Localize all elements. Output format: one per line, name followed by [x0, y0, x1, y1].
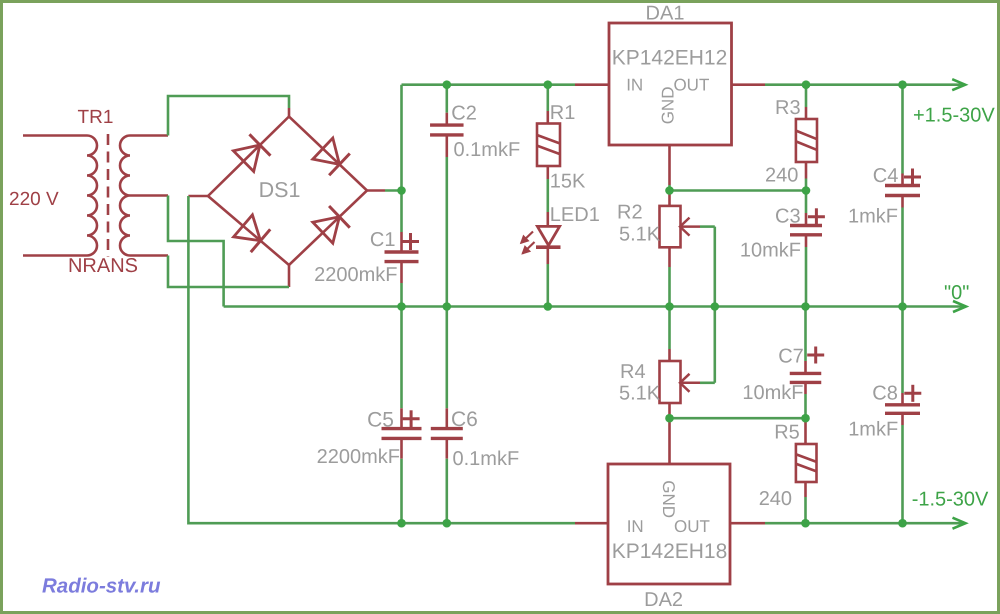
svg-text:5.1K: 5.1K: [619, 383, 661, 405]
svg-text:2200mkF: 2200mkF: [317, 446, 400, 468]
svg-text:15K: 15K: [550, 171, 586, 193]
svg-text:10mkF: 10mkF: [742, 382, 803, 404]
svg-text:-1.5-30V: -1.5-30V: [912, 489, 989, 511]
svg-text:C8: C8: [872, 382, 898, 404]
svg-text:0.1mkF: 0.1mkF: [454, 139, 521, 161]
svg-text:1mkF: 1mkF: [848, 206, 898, 228]
svg-text:C3: C3: [775, 206, 801, 228]
svg-text:240: 240: [759, 488, 792, 510]
svg-text:NRANS: NRANS: [68, 255, 138, 277]
svg-text:1mkF: 1mkF: [848, 419, 898, 441]
svg-text:OUT: OUT: [673, 76, 709, 95]
svg-text:C5: C5: [367, 409, 394, 432]
svg-text:KP142EH18: KP142EH18: [612, 540, 728, 563]
svg-text:5.1K: 5.1K: [619, 224, 661, 246]
svg-text:R3: R3: [775, 97, 801, 119]
svg-text:LED1: LED1: [550, 204, 600, 226]
svg-text:DA1: DA1: [646, 3, 685, 25]
svg-text:"0": "0": [944, 282, 969, 304]
svg-text:R5: R5: [774, 422, 800, 444]
svg-text:DA2: DA2: [644, 589, 683, 611]
svg-text:+1.5-30V: +1.5-30V: [913, 105, 995, 127]
svg-text:2200mkF: 2200mkF: [314, 264, 397, 286]
svg-text:C7: C7: [778, 345, 804, 367]
svg-text:KP142EH12: KP142EH12: [612, 47, 728, 70]
svg-text:0.1mkF: 0.1mkF: [453, 448, 520, 470]
svg-text:DS1: DS1: [259, 178, 301, 202]
svg-text:R4: R4: [620, 361, 646, 383]
svg-text:IN: IN: [626, 76, 643, 95]
svg-text:C1: C1: [370, 229, 396, 251]
svg-text:Radio-stv.ru: Radio-stv.ru: [42, 575, 161, 598]
svg-text:R1: R1: [550, 102, 576, 124]
svg-text:C6: C6: [451, 408, 478, 431]
svg-text:C4: C4: [873, 165, 899, 187]
svg-text:240: 240: [765, 165, 798, 187]
svg-text:OUT: OUT: [674, 517, 710, 536]
svg-text:GND: GND: [658, 87, 677, 125]
svg-text:R2: R2: [617, 202, 643, 224]
svg-text:IN: IN: [627, 517, 644, 536]
svg-text:10mkF: 10mkF: [740, 240, 801, 262]
svg-text:TR1: TR1: [78, 107, 114, 128]
svg-text:GND: GND: [659, 480, 678, 518]
svg-text:C2: C2: [451, 103, 477, 125]
svg-text:220 V: 220 V: [9, 189, 59, 210]
